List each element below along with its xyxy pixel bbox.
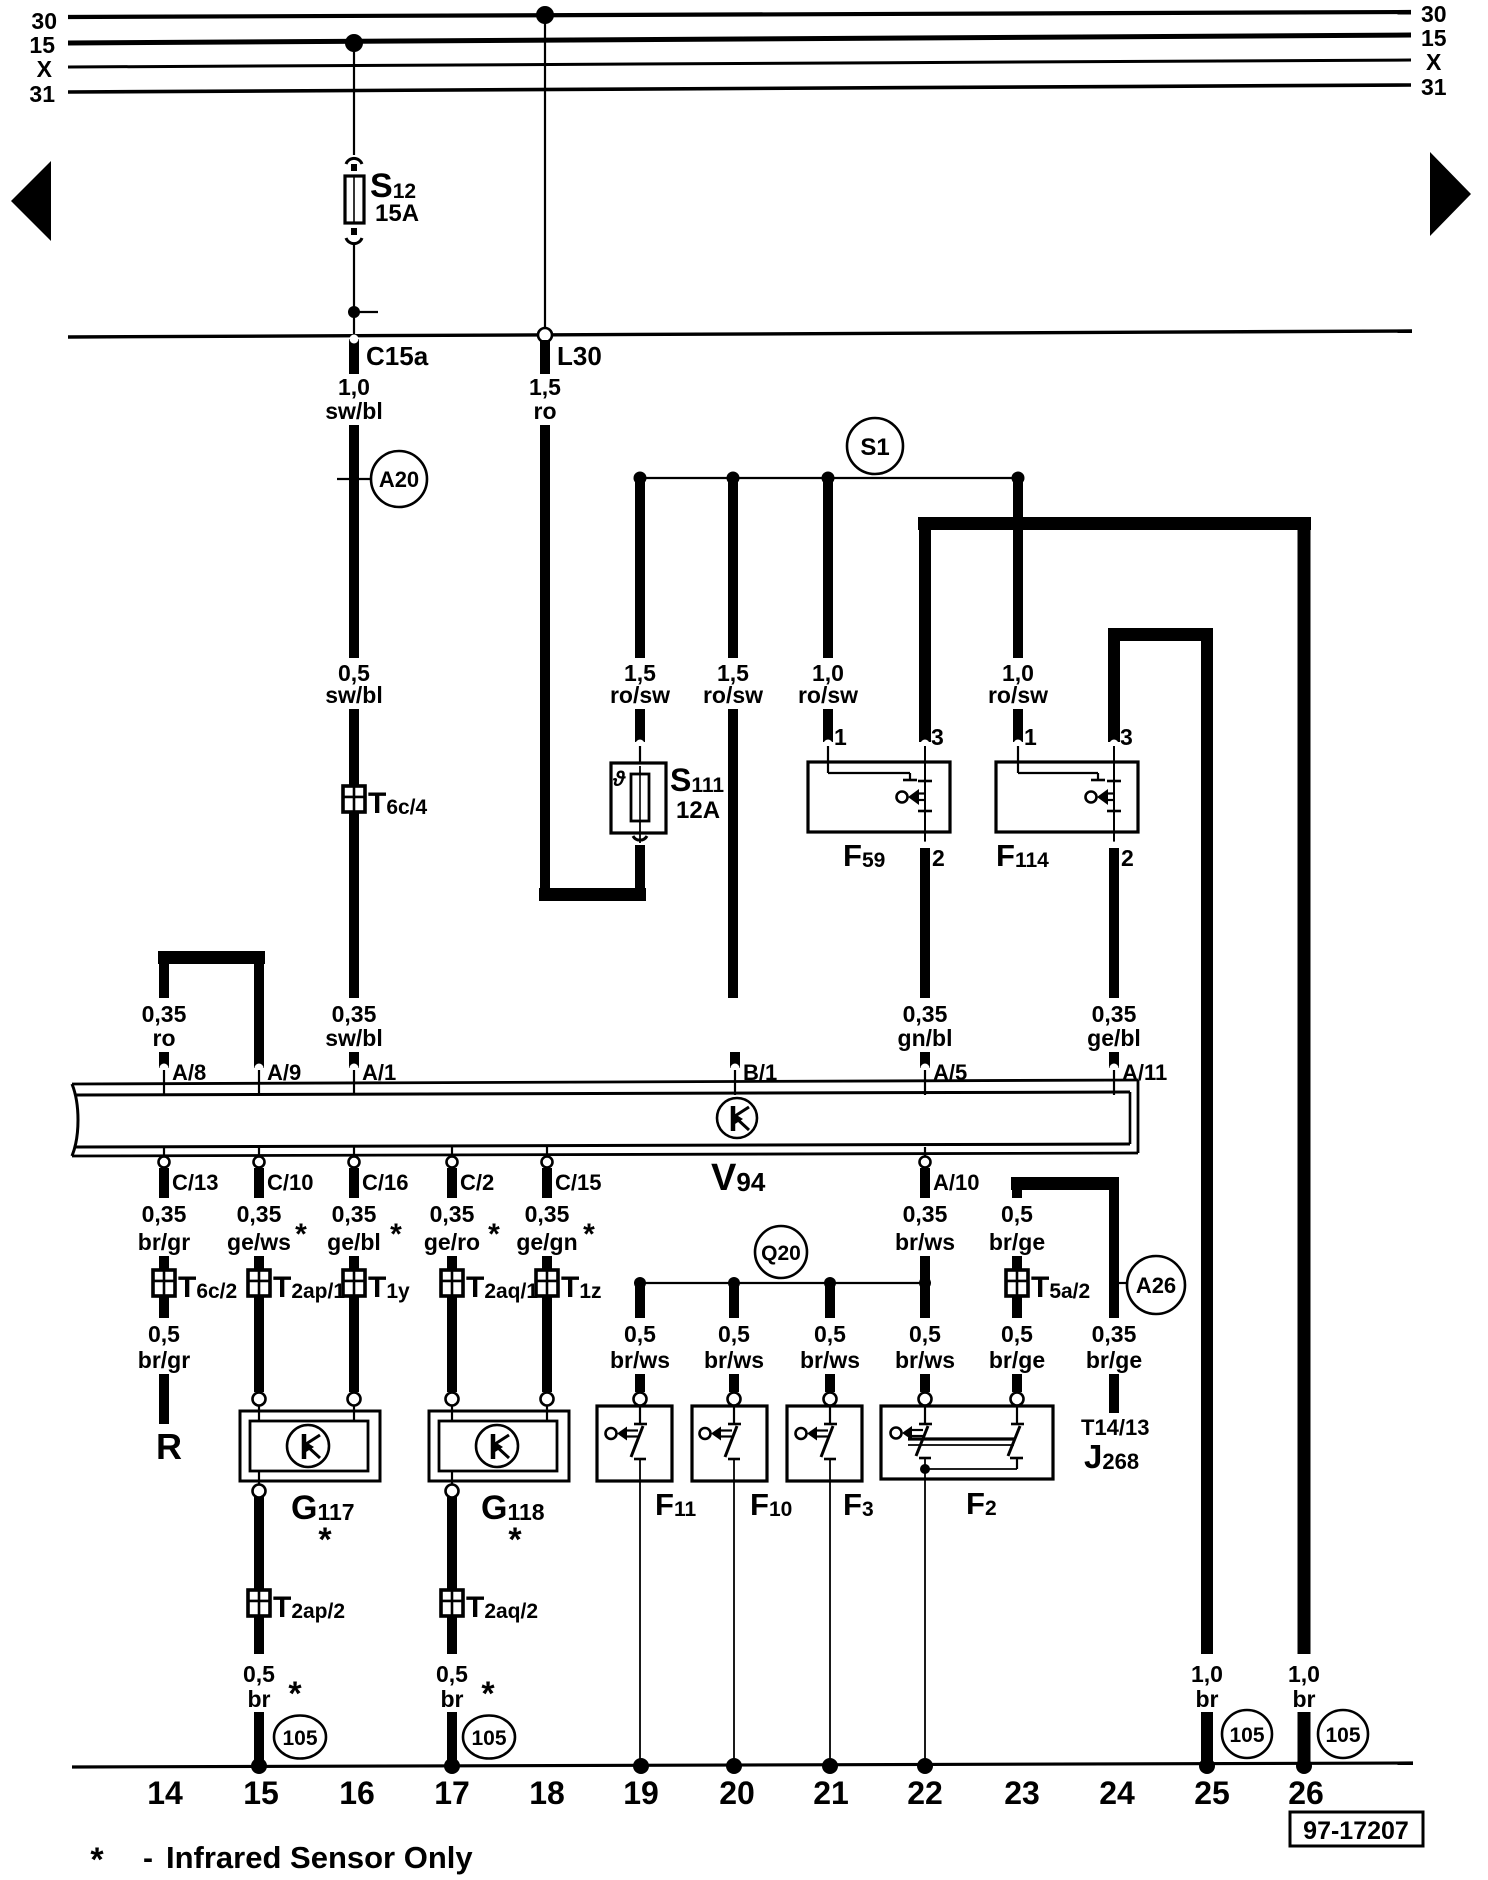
svg-text:0,5: 0,5 xyxy=(718,1321,750,1347)
wire F59 pin3 to terminal 26 - horizontal xyxy=(918,517,1311,530)
svg-text:*: * xyxy=(295,1218,307,1251)
switch F11 xyxy=(597,1406,672,1481)
svg-text:22: 22 xyxy=(907,1775,943,1811)
node S1 dots xyxy=(634,472,647,485)
svg-text:97-17207: 97-17207 xyxy=(1303,1817,1409,1845)
bus S1 line xyxy=(640,477,1018,479)
wire ro vertical xyxy=(540,425,550,895)
svg-text:0,35: 0,35 xyxy=(525,1201,570,1227)
svg-text:23: 23 xyxy=(1004,1775,1040,1811)
wire A/9 xyxy=(254,964,264,1068)
F2 bridge bar xyxy=(908,1437,1014,1440)
svg-text:C/15: C/15 xyxy=(555,1170,601,1195)
svg-text:24: 24 xyxy=(1099,1775,1135,1811)
svg-text:2: 2 xyxy=(1121,845,1134,871)
svg-text:1: 1 xyxy=(834,724,847,750)
svg-text:F59: F59 xyxy=(843,838,885,873)
svg-text:15: 15 xyxy=(29,32,55,58)
svg-text:br: br xyxy=(1196,1686,1219,1712)
svg-text:A/11: A/11 xyxy=(1122,1060,1167,1085)
wire A/8-A/9 bridge xyxy=(158,951,265,964)
wire S1 to F114 pin 1 xyxy=(1013,478,1023,658)
svg-text:105: 105 xyxy=(282,1727,317,1750)
svg-text:0,35: 0,35 xyxy=(430,1201,475,1227)
terminal G118 bottom xyxy=(451,1471,453,1485)
svg-text:R: R xyxy=(156,1426,182,1467)
terminal C15a xyxy=(349,339,359,374)
svg-text:C15a: C15a xyxy=(366,341,429,371)
switch F3 xyxy=(787,1406,862,1481)
svg-text:X: X xyxy=(1426,49,1442,75)
svg-text:16: 16 xyxy=(339,1775,375,1811)
svg-text:21: 21 xyxy=(813,1775,849,1811)
svg-text:0,35: 0,35 xyxy=(237,1201,282,1227)
pin 2 F59 xyxy=(921,842,930,851)
svg-text:br/ws: br/ws xyxy=(895,1347,955,1373)
svg-text:C/2: C/2 xyxy=(460,1170,494,1195)
svg-text:*: * xyxy=(583,1218,595,1251)
svg-text:T1z: T1z xyxy=(561,1271,602,1304)
motor G118 box xyxy=(429,1411,569,1481)
wire L30 from bus 30 xyxy=(536,6,554,24)
wire A/10 to Q20 bus xyxy=(920,1256,930,1318)
wire 15 to S12 xyxy=(353,43,355,155)
bus line 30 xyxy=(68,12,1411,17)
wire sw/bl upper xyxy=(349,425,359,658)
junction on bus 15 xyxy=(345,34,363,52)
svg-text:3: 3 xyxy=(931,724,944,750)
ground 105 at 26 xyxy=(1318,1710,1368,1758)
switch F2 xyxy=(881,1406,1053,1479)
svg-text:1,0: 1,0 xyxy=(1191,1661,1223,1687)
svg-text:0,35: 0,35 xyxy=(142,1001,187,1027)
svg-text:C/16: C/16 xyxy=(362,1170,408,1195)
svg-text:0,35: 0,35 xyxy=(332,1001,377,1027)
connector T1z xyxy=(536,1270,558,1296)
svg-text:30: 30 xyxy=(1421,1,1447,27)
motor G117 box xyxy=(240,1411,380,1481)
svg-text:17: 17 xyxy=(434,1775,470,1811)
terminal C/16 xyxy=(353,1147,355,1158)
svg-text:T6c/2: T6c/2 xyxy=(178,1271,237,1304)
connector T2aq/2 xyxy=(441,1590,463,1616)
svg-text:14: 14 xyxy=(147,1775,183,1811)
bus Q20 line xyxy=(640,1282,925,1284)
svg-text:25: 25 xyxy=(1194,1775,1230,1811)
svg-text:0,5: 0,5 xyxy=(148,1321,180,1347)
wire C/16 to G117 xyxy=(349,1256,359,1392)
svg-text:0,35: 0,35 xyxy=(903,1201,948,1227)
fuse S111 12A xyxy=(611,763,666,833)
svg-text:A/10: A/10 xyxy=(933,1170,979,1195)
wire Q20 to F3 xyxy=(825,1283,835,1318)
node A26 xyxy=(1127,1256,1185,1314)
wire F59 pin3 vertical xyxy=(919,530,931,742)
connector T6c/2 xyxy=(153,1270,175,1296)
svg-text:T2ap/1: T2ap/1 xyxy=(273,1271,345,1304)
wire C/15 to G118 xyxy=(542,1256,552,1392)
pin 2 F114 xyxy=(1110,842,1119,851)
svg-text:3: 3 xyxy=(1120,724,1133,750)
svg-text:1: 1 xyxy=(1024,724,1037,750)
svg-text:*: * xyxy=(390,1218,402,1251)
svg-text:T2ap/2: T2ap/2 xyxy=(273,1591,345,1624)
svg-text:*: * xyxy=(318,1521,332,1559)
svg-text:br/ge: br/ge xyxy=(1086,1347,1142,1373)
svg-text:sw/bl: sw/bl xyxy=(325,398,383,424)
svg-text:*: * xyxy=(288,1675,302,1713)
wire terminal 26 vertical upper xyxy=(1298,530,1311,1654)
svg-text:*: * xyxy=(488,1218,500,1251)
svg-text:A20: A20 xyxy=(379,467,419,492)
svg-text:F10: F10 xyxy=(750,1487,792,1522)
wire F114 pin3 to terminal 25 - horizontal xyxy=(1108,628,1213,641)
svg-text:15A: 15A xyxy=(375,200,419,227)
motor G117 K symbol xyxy=(287,1425,329,1467)
svg-text:1,0: 1,0 xyxy=(338,374,370,400)
terminal G117 bottom xyxy=(258,1471,260,1485)
thermal switch F59 xyxy=(808,762,950,832)
wire S12 to node xyxy=(353,243,355,337)
svg-text:br: br xyxy=(248,1686,271,1712)
svg-text:ϑ: ϑ xyxy=(612,768,626,791)
wire S1 to B/1 xyxy=(728,478,738,658)
svg-text:0,5: 0,5 xyxy=(436,1661,468,1687)
node A26 tick xyxy=(1114,1282,1127,1284)
wire Q20 to F11 xyxy=(635,1283,645,1318)
rail junction dots xyxy=(251,1758,267,1774)
svg-text:ro: ro xyxy=(534,398,557,424)
svg-text:0,5: 0,5 xyxy=(1001,1321,1033,1347)
bus line 15 xyxy=(68,35,1411,43)
svg-text:J268: J268 xyxy=(1084,1438,1139,1475)
svg-text:20: 20 xyxy=(719,1775,755,1811)
svg-text:br/ws: br/ws xyxy=(610,1347,670,1373)
svg-text:F11: F11 xyxy=(655,1487,696,1522)
svg-text:1,0: 1,0 xyxy=(1288,1661,1320,1687)
svg-text:br/ws: br/ws xyxy=(895,1229,955,1255)
wire G117 to ground xyxy=(254,1497,264,1654)
connector T6c/4 xyxy=(343,786,365,812)
svg-text:C/10: C/10 xyxy=(267,1170,313,1195)
svg-text:T6c/4: T6c/4 xyxy=(368,787,428,820)
page arrow left xyxy=(11,161,51,241)
svg-text:*: * xyxy=(90,1841,104,1879)
drawing number box 97-17207 xyxy=(1290,1812,1423,1846)
svg-text:C/13: C/13 xyxy=(172,1170,218,1195)
ground 105 at 15 xyxy=(274,1716,326,1759)
svg-text:0,35: 0,35 xyxy=(142,1201,187,1227)
node A20 tick xyxy=(337,478,371,480)
svg-text:18: 18 xyxy=(529,1775,565,1811)
label Q20 xyxy=(755,1226,807,1278)
svg-text:0,5: 0,5 xyxy=(909,1321,941,1347)
svg-text:1,5: 1,5 xyxy=(529,374,561,400)
connector T2ap/1 xyxy=(248,1270,270,1296)
node A20 xyxy=(371,451,427,507)
terminal L30 xyxy=(538,328,552,342)
control unit V94 box xyxy=(72,1080,1138,1084)
connector T5a/2 xyxy=(1006,1270,1028,1296)
connector T1y xyxy=(343,1270,365,1296)
wire T5a/2 bridge top xyxy=(1011,1177,1119,1190)
svg-text:br: br xyxy=(441,1686,464,1712)
wire F114 pin3 vertical xyxy=(1108,641,1120,742)
svg-text:S111: S111 xyxy=(670,762,724,798)
wire G118 to ground xyxy=(447,1497,457,1654)
svg-text:A/9: A/9 xyxy=(267,1060,301,1085)
wire C/2 to G118 xyxy=(447,1256,457,1392)
svg-text:0,35: 0,35 xyxy=(332,1201,377,1227)
wire Q20 to F10 xyxy=(729,1283,739,1318)
svg-text:ro/sw: ro/sw xyxy=(988,682,1048,708)
svg-text:br: br xyxy=(1293,1686,1316,1712)
svg-text:0,5: 0,5 xyxy=(1001,1201,1033,1227)
svg-text:T2aq/2: T2aq/2 xyxy=(466,1591,538,1624)
svg-text:gn/bl: gn/bl xyxy=(898,1025,953,1051)
connector T2ap/2 xyxy=(248,1590,270,1616)
svg-text:br/ws: br/ws xyxy=(800,1347,860,1373)
svg-text:F114: F114 xyxy=(996,838,1049,873)
svg-text:15: 15 xyxy=(1421,25,1447,51)
wire F3 to ground rail xyxy=(829,1459,831,1766)
svg-text:*: * xyxy=(481,1675,495,1713)
terminal C/13 xyxy=(163,1147,165,1158)
svg-text:T1y: T1y xyxy=(368,1271,410,1304)
fuse S12 15A xyxy=(346,158,362,164)
switch F10 xyxy=(692,1406,767,1481)
svg-text:12A: 12A xyxy=(676,797,720,824)
svg-text:*: * xyxy=(508,1521,522,1559)
svg-text:15: 15 xyxy=(243,1775,279,1811)
svg-text:2: 2 xyxy=(932,845,945,871)
svg-text:19: 19 xyxy=(623,1775,659,1811)
svg-text:105: 105 xyxy=(1325,1724,1360,1747)
svg-text:0,5: 0,5 xyxy=(624,1321,656,1347)
label S1 xyxy=(847,418,903,474)
svg-text:T2aq/1: T2aq/1 xyxy=(466,1271,538,1304)
svg-text:ro/sw: ro/sw xyxy=(610,682,670,708)
wire ro elbow to S111 xyxy=(539,888,646,901)
svg-text:V94: V94 xyxy=(711,1157,766,1199)
svg-text:S1: S1 xyxy=(860,434,889,461)
ground rail xyxy=(72,1763,1413,1767)
svg-text:A/8: A/8 xyxy=(172,1060,206,1085)
svg-text:B/1: B/1 xyxy=(743,1060,777,1085)
separator rail xyxy=(68,331,1412,337)
terminal A/10 xyxy=(924,1147,926,1158)
connector T2aq/1 xyxy=(441,1270,463,1296)
V94 K symbol xyxy=(717,1098,757,1138)
wire to J268 xyxy=(1109,1190,1119,1318)
terminal C/2 xyxy=(451,1147,453,1158)
page arrow right xyxy=(1430,152,1471,236)
svg-text:0,35: 0,35 xyxy=(1092,1321,1137,1347)
svg-text:br/ws: br/ws xyxy=(704,1347,764,1373)
bus line 31 xyxy=(68,85,1411,92)
svg-text:ge/bl: ge/bl xyxy=(327,1229,381,1255)
svg-text:31: 31 xyxy=(29,81,55,107)
svg-text:A26: A26 xyxy=(1136,1273,1176,1298)
ground 105 at 25 xyxy=(1222,1710,1272,1758)
wire terminal 25 vertical upper xyxy=(1201,641,1213,1654)
svg-text:0,35: 0,35 xyxy=(1092,1001,1137,1027)
svg-text:-: - xyxy=(143,1842,153,1875)
svg-text:F3: F3 xyxy=(843,1487,874,1522)
svg-text:ge/ro: ge/ro xyxy=(424,1229,480,1255)
svg-text:T5a/2: T5a/2 xyxy=(1031,1271,1090,1304)
svg-text:ro: ro xyxy=(153,1025,176,1051)
svg-text:30: 30 xyxy=(31,8,57,34)
svg-text:sw/bl: sw/bl xyxy=(325,1025,383,1051)
bus line X xyxy=(68,60,1411,67)
wire C/10 to G117 xyxy=(254,1256,264,1392)
svg-text:ge/gn: ge/gn xyxy=(516,1229,577,1255)
svg-text:br/gr: br/gr xyxy=(138,1347,190,1373)
svg-text:ge/ws: ge/ws xyxy=(227,1229,291,1255)
svg-text:26: 26 xyxy=(1288,1775,1324,1811)
svg-text:A/1: A/1 xyxy=(362,1060,396,1085)
wire C/13 to R xyxy=(159,1256,169,1318)
svg-text:105: 105 xyxy=(1229,1724,1264,1747)
Q20 bus dots xyxy=(634,1277,646,1289)
svg-text:31: 31 xyxy=(1421,74,1447,100)
svg-text:ro/sw: ro/sw xyxy=(798,682,858,708)
svg-text:ge/bl: ge/bl xyxy=(1087,1025,1141,1051)
wire S1 to F59 pin 1 xyxy=(823,478,833,658)
svg-text:br/ge: br/ge xyxy=(989,1229,1045,1255)
terminal C/15 xyxy=(546,1147,548,1158)
svg-text:0,35: 0,35 xyxy=(903,1001,948,1027)
svg-text:L30: L30 xyxy=(557,341,602,371)
wire br/ge upper xyxy=(1012,1190,1022,1198)
wire F11 to ground rail xyxy=(639,1459,641,1766)
motor G118 K symbol xyxy=(476,1425,518,1467)
svg-text:Q20: Q20 xyxy=(761,1242,801,1265)
F2 junction xyxy=(920,1464,930,1474)
svg-text:X: X xyxy=(37,56,53,82)
ground 105 at 17 xyxy=(463,1716,515,1759)
terminal C/10 xyxy=(258,1147,260,1158)
svg-text:F2: F2 xyxy=(966,1486,997,1521)
wire F2 to ground rail xyxy=(924,1459,926,1766)
svg-text:A/5: A/5 xyxy=(933,1060,967,1085)
svg-text:T14/13: T14/13 xyxy=(1081,1415,1150,1440)
svg-text:Infrared Sensor Only: Infrared Sensor Only xyxy=(166,1840,473,1875)
wire F10 to ground rail xyxy=(733,1459,735,1766)
thermal switch F114 xyxy=(996,762,1138,832)
svg-text:0,5: 0,5 xyxy=(814,1321,846,1347)
junction node below S12 xyxy=(348,306,360,318)
svg-text:sw/bl: sw/bl xyxy=(325,682,383,708)
svg-text:105: 105 xyxy=(471,1727,506,1750)
wire S1 to S111 fuse xyxy=(635,478,645,658)
svg-text:br/gr: br/gr xyxy=(138,1229,190,1255)
svg-text:0,5: 0,5 xyxy=(243,1661,275,1687)
svg-text:br/ge: br/ge xyxy=(989,1347,1045,1373)
svg-text:ro/sw: ro/sw xyxy=(703,682,763,708)
